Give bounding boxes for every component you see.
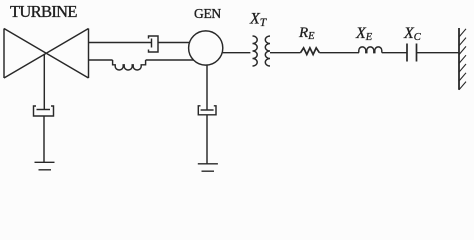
svg-text:RE: RE: [298, 25, 315, 42]
wire: generator to transformer XT: [223, 52, 251, 54]
damper D2 below turbine (cup): [34, 106, 54, 116]
infinite bus (wall line): [458, 28, 460, 90]
damper D1 on shaft (cup): [149, 36, 159, 52]
turbine T (bowtie symbol): [4, 29, 89, 79]
resistor RE: [301, 48, 320, 55]
transformer XT (left winding): [253, 36, 258, 66]
svg-text:TURBINE: TURBINE: [10, 2, 78, 21]
wire: upper shaft turbine to damper D1: [89, 42, 152, 44]
inductor XE: [359, 47, 382, 53]
wire: turbine center rod down to damper D2: [43, 54, 45, 110]
damper D2 below turbine (piston): [37, 109, 51, 111]
capacitor XC (plates): [407, 44, 417, 62]
wire: generator down to damper D3: [206, 65, 208, 110]
wire: lower shaft spring K to generator: [146, 59, 194, 61]
wire: damper D2 to ground: [43, 116, 45, 162]
wire: upper shaft damper D1 to generator: [158, 42, 191, 44]
damper D1 on shaft (piston): [151, 39, 153, 48]
wire: inductor XE to capacitor XC: [382, 52, 407, 54]
wire: resistor RE to inductor XE: [319, 52, 359, 54]
wire: capacitor XC to infinite bus: [417, 52, 460, 54]
wire: transformer XT to resistor RE: [270, 52, 301, 54]
wire: damper D3 to ground: [206, 115, 208, 164]
torsional spring K on lower shaft: [113, 60, 146, 70]
wire: lower shaft turbine to spring K: [89, 59, 113, 61]
infinite bus (hatching): [459, 29, 466, 90]
svg-text:GEN: GEN: [194, 6, 221, 21]
transformer XT (right winding): [265, 36, 270, 66]
svg-text:XT: XT: [249, 11, 268, 29]
svg-text:XE: XE: [355, 25, 373, 43]
svg-text:XC: XC: [403, 25, 422, 43]
ground below turbine: [35, 162, 55, 170]
damper D3 below generator (cup): [198, 106, 216, 115]
ground below generator: [198, 164, 218, 171]
damper D3 below generator (piston): [201, 109, 214, 111]
generator G (circle): [189, 31, 223, 65]
